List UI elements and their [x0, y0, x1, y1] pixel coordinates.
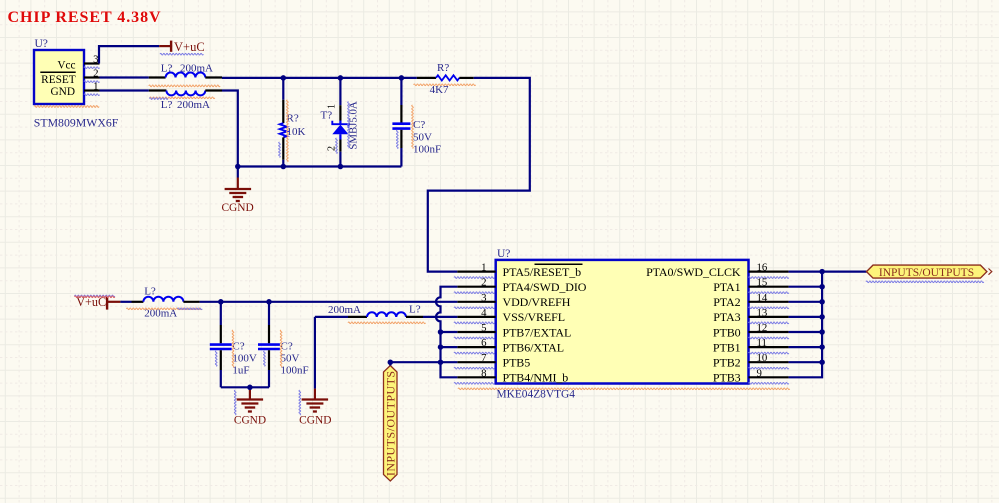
svg-text:PTB1: PTB1 — [713, 340, 741, 354]
svg-text:L?: L? — [409, 304, 421, 316]
node junction bus pin5 — [438, 329, 444, 335]
pin 3 U? — [84, 62, 100, 64]
ground CGND top — [237, 167, 239, 178]
capacitor C1 100nF — [400, 78, 402, 105]
inductor L2 — [100, 89, 149, 91]
svg-text:RESET: RESET — [41, 74, 76, 86]
node junction right bus 13 — [819, 314, 825, 320]
svg-text:13: 13 — [757, 307, 768, 319]
pin 3 VDD/VREFH — [457, 301, 495, 303]
pin 4 VSS/VREFL — [457, 316, 495, 318]
svg-text:10: 10 — [757, 352, 768, 364]
svg-text:15: 15 — [757, 277, 768, 289]
svg-text:100nF: 100nF — [413, 143, 441, 155]
ground CGND L4 — [314, 317, 316, 389]
wire RESET to MCU — [428, 78, 530, 272]
svg-text:PTA2: PTA2 — [713, 295, 740, 309]
svg-text:V+uC: V+uC — [174, 40, 205, 54]
node junction C top — [399, 75, 405, 81]
svg-text:PTB0: PTB0 — [713, 325, 741, 339]
node junction port — [388, 359, 394, 365]
pin 13 PTA3 — [749, 316, 789, 318]
svg-text:1uF: 1uF — [232, 364, 249, 376]
node junction bus pin6 — [438, 344, 444, 350]
svg-text:3: 3 — [481, 292, 486, 304]
resistor R2 4K7 — [417, 77, 436, 79]
wire bus to port — [822, 271, 866, 273]
diode triangle — [332, 125, 348, 135]
node junction right bus 14 — [819, 299, 825, 305]
svg-text:L?: L? — [161, 62, 173, 74]
port INPUTS/OUTPUTS vertical — [384, 366, 398, 482]
svg-text:5: 5 — [481, 322, 486, 334]
pin 2 U? — [84, 76, 100, 78]
svg-text:8: 8 — [481, 367, 486, 379]
svg-text:9: 9 — [757, 367, 762, 379]
compile mark under MCU — [458, 388, 790, 390]
svg-text:4: 4 — [481, 307, 487, 319]
pin 1 PTA5/RESET_b — [457, 271, 495, 273]
node junction TVS bottom — [338, 164, 344, 170]
svg-text:200mA: 200mA — [328, 304, 361, 316]
svg-text:1: 1 — [481, 262, 486, 274]
port right tick — [989, 269, 992, 275]
wire left bus — [436, 287, 457, 378]
pin 15 PTA1 — [749, 286, 789, 288]
svg-text:PTA4/SWD_DIO: PTA4/SWD_DIO — [503, 280, 587, 294]
wire GND drop — [222, 91, 238, 167]
node junction right bus 11 — [819, 344, 825, 350]
svg-text:100V: 100V — [232, 353, 257, 365]
svg-text:3: 3 — [93, 54, 98, 66]
svg-text:11: 11 — [757, 337, 767, 349]
svg-text:PTB4/NMI_b: PTB4/NMI_b — [503, 371, 569, 385]
wire pin3 to V+uC — [99, 46, 159, 63]
svg-text:VSS/VREFL: VSS/VREFL — [503, 310, 565, 324]
ground CGND caps — [249, 387, 251, 390]
pin 10 PTB2 — [749, 361, 789, 363]
node junction R10K bottom — [281, 164, 287, 170]
transistor T? TVS SMBJ5.0A — [339, 78, 341, 105]
op-amp U1 STM809MWX6F body — [34, 50, 84, 104]
svg-text:CGND: CGND — [299, 415, 331, 427]
svg-text:2: 2 — [93, 68, 98, 80]
inductor L1 — [149, 76, 166, 78]
svg-text:CGND: CGND — [234, 415, 266, 427]
svg-text:INPUTS/OUTPUTS: INPUTS/OUTPUTS — [384, 370, 398, 476]
svg-text:2: 2 — [481, 277, 486, 289]
wire bottom rail — [238, 165, 402, 167]
svg-text:PTA0/SWD_CLCK: PTA0/SWD_CLCK — [646, 265, 741, 279]
pin 12 PTB0 — [749, 331, 789, 333]
svg-text:PTB5: PTB5 — [503, 356, 531, 370]
svg-text:14: 14 — [757, 292, 768, 304]
svg-text:4K7: 4K7 — [430, 84, 449, 96]
svg-text:1: 1 — [93, 81, 98, 93]
svg-text:L?: L? — [161, 99, 173, 111]
wire pin2 to L1 — [100, 76, 149, 78]
node junction CGND tap — [235, 164, 241, 170]
resistor R1 10K — [282, 78, 284, 100]
node junction R10K top — [281, 75, 287, 81]
power port V+uC top — [159, 45, 171, 47]
pin 1 U? — [84, 89, 100, 91]
compile mark under U? — [34, 106, 99, 108]
pin 14 PTA2 — [749, 301, 789, 303]
node junction cap1 — [218, 299, 224, 305]
pin 6 PTB6/XTAL — [457, 346, 495, 348]
wire right bus — [789, 272, 823, 378]
wire port to pin7 — [389, 362, 391, 365]
pin 11 PTB1 — [749, 346, 789, 348]
wire VDD rail — [200, 301, 458, 303]
svg-text:PTA5/RESET_b: PTA5/RESET_b — [503, 265, 582, 279]
overline RESET — [40, 71, 75, 73]
pin 2 PTA4/SWD_DIO — [457, 286, 495, 288]
svg-text:200mA: 200mA — [177, 99, 210, 111]
overline RESET_b — [535, 263, 583, 265]
svg-text:T?: T? — [321, 110, 333, 122]
svg-text:PTB6/XTAL: PTB6/XTAL — [503, 340, 564, 354]
svg-text:PTA3: PTA3 — [713, 310, 740, 324]
svg-text:R?: R? — [437, 62, 449, 74]
svg-text:INPUTS/OUTPUTS: INPUTS/OUTPUTS — [879, 267, 974, 279]
node junction right bus 16 — [819, 269, 825, 275]
svg-text:100nF: 100nF — [281, 364, 309, 376]
svg-text:10K: 10K — [287, 126, 306, 138]
svg-text:PTB2: PTB2 — [713, 356, 741, 370]
svg-text:PTA1: PTA1 — [713, 280, 740, 294]
wire RESET rail — [222, 77, 417, 79]
zener bar — [332, 121, 348, 128]
svg-text:50V: 50V — [413, 131, 432, 143]
svg-text:STM809MWX6F: STM809MWX6F — [34, 116, 119, 130]
svg-text:12: 12 — [757, 322, 768, 334]
node junction right bus 15 — [819, 284, 825, 290]
svg-text:VDD/VREFH: VDD/VREFH — [503, 295, 571, 309]
svg-text:50V: 50V — [281, 353, 300, 365]
node junction right bus 12 — [819, 329, 825, 335]
node junction right bus 10 — [819, 359, 825, 365]
node junction cap2 — [266, 299, 272, 305]
pin 16 PTA0/SWD_CLCK — [749, 271, 789, 273]
svg-text:PTB3: PTB3 — [713, 371, 741, 385]
svg-text:U?: U? — [35, 38, 48, 50]
node junction gnd tap — [247, 385, 253, 391]
capacitor C2 1uF — [220, 302, 222, 325]
svg-text:U?: U? — [497, 248, 510, 260]
op-amp U2 MKE04Z8VTG4 body — [496, 260, 749, 384]
svg-text:6: 6 — [481, 337, 487, 349]
pin 7 PTB5 — [457, 361, 495, 363]
inductor L3 — [120, 301, 131, 303]
node junction bus pin7 — [438, 359, 444, 365]
port INPUTS/OUTPUTS horizontal — [867, 265, 987, 278]
node junction TVS top — [338, 75, 344, 81]
capacitor C3 100nF — [268, 302, 270, 325]
svg-text:MKE04Z8VTG4: MKE04Z8VTG4 — [497, 389, 576, 401]
pin 8 PTB4/NMI_b — [457, 376, 495, 378]
svg-text:PTB7/EXTAL: PTB7/EXTAL — [503, 325, 572, 339]
svg-text:CHIP RESET 4.38V: CHIP RESET 4.38V — [8, 9, 162, 26]
pin 5 PTB7/EXTAL — [457, 331, 495, 333]
svg-text:CGND: CGND — [221, 202, 253, 214]
svg-text:7: 7 — [481, 352, 487, 364]
svg-text:L?: L? — [144, 285, 156, 297]
svg-text:200mA: 200mA — [180, 62, 213, 74]
svg-text:C?: C? — [413, 119, 425, 131]
pin 9 PTB3 — [749, 376, 789, 378]
svg-text:Vcc: Vcc — [57, 60, 75, 72]
svg-text:GND: GND — [51, 86, 75, 98]
wire cap gnd rail — [221, 386, 269, 388]
inductor L4 — [315, 316, 348, 318]
svg-text:1: 1 — [327, 104, 338, 109]
svg-text:16: 16 — [757, 262, 768, 274]
